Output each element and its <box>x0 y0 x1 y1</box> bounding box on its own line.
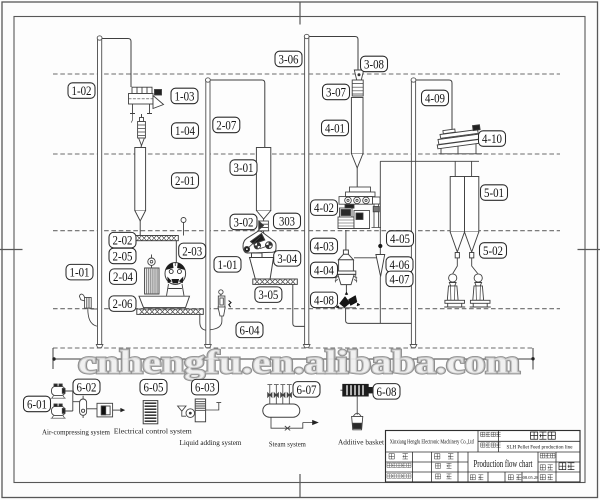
feeder magnet under bin 3-01 <box>259 219 269 231</box>
svg-text:4-06: 4-06 <box>390 257 410 272</box>
cell 比例 <box>470 475 483 480</box>
cell text 子项名称 <box>481 443 501 447</box>
label 3-05 <box>255 287 282 303</box>
surge bin 4-01 <box>351 98 363 188</box>
wire cooler to small cyclone <box>354 257 377 259</box>
label 3-08 <box>361 56 388 71</box>
svg-text:6-04: 6-04 <box>240 322 260 337</box>
label 4-05 <box>387 231 414 247</box>
label 2-03 <box>179 243 206 259</box>
svg-text:3-02: 3-02 <box>234 215 254 230</box>
liquid tank <box>195 399 205 422</box>
cooler 4-04 <box>335 250 357 285</box>
ground line right stub <box>532 348 534 370</box>
svg-text:6-02: 6-02 <box>77 379 97 394</box>
svg-text:2-06: 2-06 <box>113 296 133 311</box>
wire fan riser to overhead duct <box>379 161 381 323</box>
label 3-01 <box>230 160 257 176</box>
svg-text:2-01: 2-01 <box>175 173 195 188</box>
svg-text:6-08: 6-08 <box>377 384 397 399</box>
bucket elevator pipe 1-02 <box>96 36 103 348</box>
svg-text:2-02: 2-02 <box>113 233 133 248</box>
svg-text:4-09: 4-09 <box>425 91 445 106</box>
svg-text:4-03: 4-03 <box>314 238 334 253</box>
screw conveyor 2-02 <box>135 236 179 241</box>
title block grid lines <box>386 431 581 483</box>
small cyclone 4-06 <box>376 255 385 277</box>
wire pipe4 top to screener 4-10 <box>415 80 452 130</box>
svg-text:1-02: 1-02 <box>72 83 92 98</box>
label 4-02 <box>311 200 338 216</box>
pellet mill 4-02 <box>338 187 381 229</box>
packing scale 5-02 unit 1 <box>444 274 465 307</box>
main receiving conveyor line <box>54 358 534 360</box>
registration tick bottom <box>299 474 301 498</box>
label 6-04 <box>236 322 263 338</box>
overhead duct to cyclones 5-01 <box>380 161 479 176</box>
magnet cylinder 1-04 <box>138 118 146 146</box>
svg-text:2-05: 2-05 <box>113 249 133 264</box>
registration tick top <box>299 2 301 25</box>
label 4-10 <box>479 131 506 147</box>
screw conveyor 2-06 <box>137 309 204 314</box>
floor level dashed line 2 <box>53 153 560 155</box>
wire crumbler collection line to elevator 4 <box>346 308 412 323</box>
steam riser valves <box>267 385 272 404</box>
svg-text:Additive basket: Additive basket <box>338 437 385 446</box>
cell 图别 <box>540 465 553 470</box>
svg-text:Production flow chart: Production flow chart <box>474 459 533 470</box>
cell 图号 <box>540 475 553 480</box>
label 1-02 <box>68 83 95 99</box>
svg-text:08.05.28: 08.05.28 <box>523 475 540 480</box>
surge bin 2-05 striped <box>145 268 159 294</box>
svg-text:5-01: 5-01 <box>484 185 504 200</box>
svg-text:3-05: 3-05 <box>258 287 278 302</box>
liquid outlet pipe <box>206 403 222 410</box>
distributor funnel 3-08 <box>354 70 363 80</box>
rotary screener 4-10 <box>437 125 482 154</box>
label 303 <box>274 213 301 229</box>
wire pipe3 top to magnet 3-08 <box>309 37 358 71</box>
label 5-01 <box>481 185 508 201</box>
label 6-05 <box>140 379 167 395</box>
svg-text:1-01: 1-01 <box>70 265 90 280</box>
air piping bus <box>65 391 80 411</box>
cell 校对 <box>436 474 452 479</box>
floor level dashed line 4 <box>53 308 560 310</box>
label 2-01 <box>172 173 199 189</box>
floor level dashed line 1 <box>53 73 560 75</box>
bucket elevator pipe 4-09el <box>410 78 417 348</box>
wire mill to cooler <box>345 230 347 250</box>
wire cleaner to magnet 1-04 <box>141 114 143 121</box>
title block frame <box>386 431 581 483</box>
label 2-02 <box>109 232 136 248</box>
cell 绘图 <box>436 463 452 468</box>
air outlet arrow <box>113 409 121 411</box>
spiral feeder on bin 2-05 <box>148 258 155 265</box>
packing scale 5-02 unit 2 <box>470 274 491 307</box>
svg-text:1-03: 1-03 <box>175 89 195 104</box>
wire pipe1 top to cleaner <box>102 39 132 88</box>
screw conveyor 3-05 <box>253 279 297 284</box>
project type 通用型 <box>531 432 556 439</box>
cell 工种负责人 <box>387 474 411 478</box>
wire conveyor 2-06 to elevator boot <box>200 315 206 331</box>
label 4-09 <box>422 90 449 106</box>
cell 审定 <box>389 454 408 459</box>
svg-text:2-04: 2-04 <box>113 269 133 284</box>
steam boiler tank 6-07 <box>263 404 300 417</box>
air compressor 1 <box>51 384 66 398</box>
svg-text:6-03: 6-03 <box>195 380 215 395</box>
svg-text:1-04: 1-04 <box>175 123 195 138</box>
svg-text:Liquid adding system: Liquid adding system <box>180 438 242 447</box>
svg-text:3-07: 3-07 <box>326 85 346 100</box>
svg-text:1-01: 1-01 <box>218 257 238 272</box>
additive drum 6-08 <box>340 384 376 396</box>
mixer 2-04 <box>165 263 186 296</box>
ground dashed line <box>53 347 533 349</box>
svg-text:4-04: 4-04 <box>314 263 334 278</box>
svg-text:4-05: 4-05 <box>390 231 410 246</box>
label 3-02 <box>230 214 257 230</box>
bucket elevator pipe 3-06el <box>303 34 310 347</box>
air filter 1-01 right <box>210 290 231 330</box>
svg-text:2-07: 2-07 <box>216 118 236 133</box>
svg-text:3-04: 3-04 <box>277 251 297 266</box>
label 3-06 <box>275 51 302 66</box>
electrical cabinet 6-05 <box>143 401 158 424</box>
label 5-02 <box>480 243 507 259</box>
bucket elevator pipe 2-07 <box>205 78 212 348</box>
label 4-08 <box>311 292 338 308</box>
label 4-07 <box>386 271 413 287</box>
label 1-01 <box>214 257 241 273</box>
svg-text:4-01: 4-01 <box>325 121 345 136</box>
svg-text:6-05: 6-05 <box>144 380 164 395</box>
wire cyclone drops to packers <box>453 258 478 274</box>
cell 日期 <box>508 475 521 480</box>
registration tick right <box>578 249 600 251</box>
label 2-07 <box>213 117 240 133</box>
label 6-08 <box>373 384 400 400</box>
label 6-07 <box>293 382 320 398</box>
svg-text:Air-compressing system: Air-compressing system <box>42 427 110 436</box>
wire conveyor 3-05 to elevator 3 boot <box>293 285 305 327</box>
ground line left stub <box>52 348 54 369</box>
cell 工程负责人 <box>387 463 411 467</box>
cell text 工程名称 <box>481 432 501 436</box>
double cyclone 5-01 <box>450 177 479 258</box>
label 6-03 <box>192 379 219 395</box>
label 1-04 <box>172 123 199 139</box>
label 6-01 <box>24 396 51 412</box>
svg-text:3-06: 3-06 <box>279 52 299 67</box>
label 3-04 <box>274 251 301 267</box>
liquid adding funnel <box>178 406 186 416</box>
air filter box <box>97 403 113 417</box>
magnet cylinder 3-07 <box>352 80 363 96</box>
liquid pump <box>186 409 195 418</box>
svg-text:3-01: 3-01 <box>234 160 254 175</box>
wire tank to filter <box>87 408 97 410</box>
label 4-03 <box>311 238 338 254</box>
registration tick left <box>0 249 23 251</box>
grinder 3-03 <box>243 231 276 279</box>
cell 工程号 <box>540 453 555 458</box>
wire magnet to bin 2-01 <box>140 146 142 148</box>
svg-text:Electrical control system: Electrical control system <box>114 426 192 435</box>
svg-text:6-07: 6-07 <box>297 382 317 397</box>
mixer platform <box>139 296 190 307</box>
svg-text:6-01: 6-01 <box>27 397 47 412</box>
label 2-06 <box>109 296 136 312</box>
label 4-04 <box>311 262 338 278</box>
cleaner machine 1-03 <box>129 87 164 122</box>
svg-text:5-02: 5-02 <box>483 243 503 258</box>
airlock dot 4-05 <box>378 244 382 248</box>
svg-text:SLH Pellet Feed production lin: SLH Pellet Feed production line <box>507 444 573 450</box>
label 4-06 <box>386 257 413 273</box>
air receiver tank <box>80 396 87 418</box>
vent pipe with cap 2-03 <box>183 223 185 236</box>
air compressor 2 <box>51 404 66 418</box>
floor level dashed line 3 <box>53 230 560 232</box>
additive basket bucket <box>356 396 358 415</box>
label 1-03 <box>171 88 198 104</box>
svg-text:4-02: 4-02 <box>314 200 334 215</box>
label 3-07 <box>323 84 350 100</box>
svg-text:cnhengfu.en.alibaba.com: cnhengfu.en.alibaba.com <box>78 344 520 380</box>
svg-text:Xinxiang Hengfu Electronic Mac: Xinxiang Hengfu Electronic Machinery Co.… <box>390 439 475 446</box>
label 1-01 <box>66 264 93 280</box>
storage bin 3-01 <box>256 148 270 220</box>
label 4-01 <box>322 120 349 136</box>
crumbler 4-08 <box>336 292 360 308</box>
svg-text:4-07: 4-07 <box>390 271 410 286</box>
wire conveyor 2-02 discharge to mixer <box>175 241 177 263</box>
svg-text:4-10: 4-10 <box>482 131 502 146</box>
svg-text:303: 303 <box>279 214 295 229</box>
svg-text:2-03: 2-03 <box>182 243 202 258</box>
label 6-02 <box>73 379 100 395</box>
wire pipe2 top to bin 3-01 <box>210 80 265 147</box>
svg-text:Steam system: Steam system <box>269 440 306 449</box>
label 2-05 <box>109 248 136 264</box>
air filter 1-01 left <box>79 294 97 326</box>
label 2-04 <box>110 269 137 285</box>
svg-text:3-08: 3-08 <box>364 57 384 72</box>
cell 设计 <box>435 454 454 459</box>
scheme 方案 <box>559 463 574 470</box>
steam drain and arrow <box>271 417 313 428</box>
wire cooler to crumbler <box>345 285 347 295</box>
svg-text:4-08: 4-08 <box>314 292 334 307</box>
storage bin 2-01 <box>135 148 146 236</box>
